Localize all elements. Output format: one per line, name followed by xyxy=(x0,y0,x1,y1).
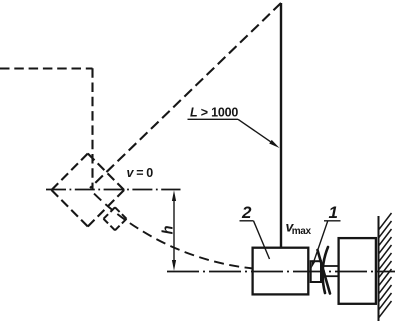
coupling X stroke B xyxy=(323,247,328,293)
svg-text:v = 0: v = 0 xyxy=(127,166,154,180)
anvil block xyxy=(339,238,376,304)
h dimension line xyxy=(173,200,175,261)
coupling X stroke A xyxy=(318,250,331,294)
label 2 underline xyxy=(240,220,254,222)
pendulum mass box 2 xyxy=(253,248,309,295)
hub on box 2 shaft xyxy=(311,261,321,282)
shaft line lower xyxy=(324,275,339,277)
swing trajectory arc xyxy=(94,194,253,269)
svg-text:2: 2 xyxy=(241,203,252,222)
wall hatching xyxy=(379,213,392,318)
svg-text:L > 1000: L > 1000 xyxy=(190,105,238,119)
pendulum arm raised (phantom diagonal) xyxy=(90,3,281,188)
shaft line upper xyxy=(324,265,339,267)
h dimension arrow up xyxy=(172,190,176,201)
pendulum arm vertical (solid) xyxy=(280,3,282,247)
svg-text:1: 1 xyxy=(329,203,338,222)
impact axis centerline (dash-dot) xyxy=(167,271,395,273)
L leader arrowhead xyxy=(269,140,279,148)
hammer axis centerline (dash-dot) xyxy=(46,189,181,191)
svg-text:max: max xyxy=(292,226,312,237)
phantom horizontal line (raised position datum) xyxy=(0,67,93,69)
striker tip raised (phantom small square) xyxy=(104,207,127,230)
label 1 leader xyxy=(314,221,328,262)
hammer head raised (phantom diamond) xyxy=(52,154,125,227)
phantom vertical line (hammer centre axis) xyxy=(91,68,93,189)
L leader line xyxy=(238,119,271,141)
L underline xyxy=(188,118,239,120)
svg-text:h: h xyxy=(161,225,177,234)
label 1 underline xyxy=(324,220,341,222)
h dimension arrow down xyxy=(172,260,176,271)
label 2 leader xyxy=(254,221,270,259)
label 1 arrowhead xyxy=(312,260,316,268)
wall line xyxy=(378,216,380,321)
